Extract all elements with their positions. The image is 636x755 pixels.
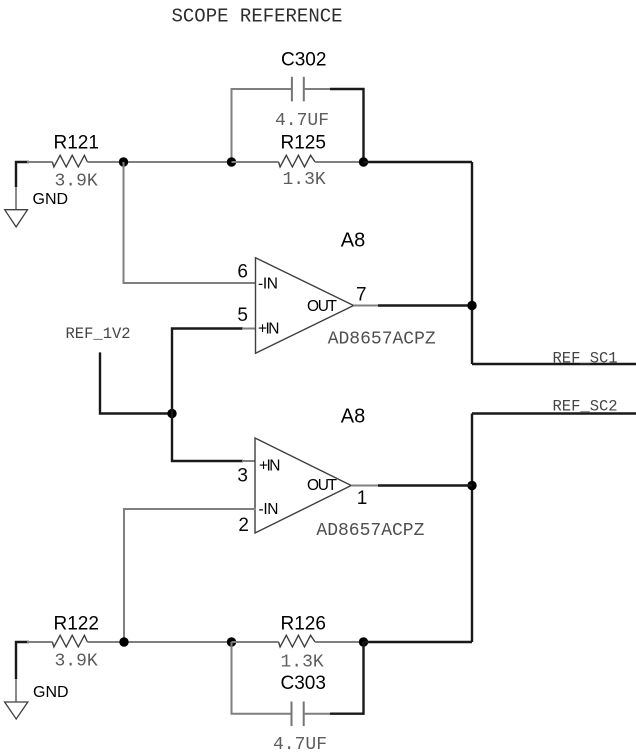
junction node N4 bbox=[467, 481, 476, 490]
wire R126 to node N7 bbox=[315, 641, 363, 643]
wire REF_1V2 stem bbox=[100, 352, 172, 413]
wire N7 to feedback corner (bottom) bbox=[364, 641, 473, 643]
svg-text:1.3K: 1.3K bbox=[281, 653, 324, 673]
svg-text:C303: C303 bbox=[281, 673, 326, 694]
wire REF_SC1 horizontal bbox=[472, 363, 636, 365]
wire C303 left branch bbox=[232, 642, 292, 714]
wire C303 right branch bbox=[330, 642, 364, 714]
wire REF_SC2 vertical to node N4 bbox=[471, 414, 473, 643]
svg-text:1: 1 bbox=[357, 488, 368, 509]
junction node N3 bbox=[467, 301, 476, 310]
svg-text:4.7UF: 4.7UF bbox=[273, 735, 327, 755]
svg-text:A8: A8 bbox=[341, 406, 365, 428]
op-amp U1A (A8 top) bbox=[256, 258, 354, 354]
wire R122 to node N6 bbox=[87, 641, 231, 643]
wire OUT1 to node N3 bbox=[378, 304, 472, 306]
pin 7 output stub bbox=[354, 305, 379, 307]
wire C302 left branch bbox=[232, 89, 292, 162]
ground GND2 bbox=[5, 678, 28, 719]
junction node REF_1V2 bbox=[167, 409, 176, 418]
pin 1 output stub bbox=[351, 485, 379, 487]
svg-text:+IN: +IN bbox=[258, 321, 280, 338]
wire N6 to R126 bbox=[232, 641, 279, 643]
svg-text:A8: A8 bbox=[341, 230, 365, 252]
svg-text:7: 7 bbox=[356, 285, 367, 306]
wire C302 right lead bbox=[304, 88, 330, 90]
svg-text:-IN: -IN bbox=[258, 276, 278, 293]
wire R121 left lead bbox=[27, 161, 52, 163]
pin 3 stub bbox=[242, 460, 255, 462]
wire R121 to node N1 bbox=[87, 161, 231, 163]
resistor R121 bbox=[52, 155, 87, 167]
capacitor C303 bbox=[291, 702, 293, 727]
svg-text:2: 2 bbox=[238, 515, 249, 536]
op-amp U1B (A8 bottom) bbox=[255, 438, 351, 533]
svg-text:3.9K: 3.9K bbox=[55, 652, 98, 672]
svg-text:R121: R121 bbox=[54, 133, 99, 154]
svg-text:OUT: OUT bbox=[307, 298, 338, 315]
wire GND2 elbow bbox=[16, 642, 29, 679]
svg-text:3: 3 bbox=[237, 466, 248, 487]
svg-text:-IN: -IN bbox=[259, 501, 279, 518]
svg-text:+IN: +IN bbox=[259, 458, 281, 475]
wire GND1 elbow bbox=[16, 162, 29, 187]
svg-text:C302: C302 bbox=[281, 50, 326, 71]
wire REF_SC2 horizontal bbox=[472, 412, 636, 414]
resistor R125 bbox=[279, 155, 316, 167]
svg-text:REF_1V2: REF_1V2 bbox=[66, 325, 131, 343]
junction node N1 bbox=[119, 157, 128, 166]
svg-text:5: 5 bbox=[237, 305, 248, 326]
svg-text:4.7UF: 4.7UF bbox=[275, 111, 329, 131]
svg-text:R125: R125 bbox=[281, 133, 326, 154]
wire -IN pin 2 to node N5 bbox=[124, 509, 256, 642]
junction node N6 (C303 tap) bbox=[227, 637, 236, 646]
svg-text:SCOPE REFERENCE: SCOPE REFERENCE bbox=[172, 6, 343, 28]
junction node N7 bbox=[359, 637, 368, 646]
ground GND1 bbox=[5, 186, 28, 227]
wire C302 right branch bbox=[330, 89, 364, 162]
resistor R126 bbox=[279, 635, 316, 647]
svg-text:AD8657ACPZ: AD8657ACPZ bbox=[328, 330, 436, 350]
svg-text:AD8657ACPZ: AD8657ACPZ bbox=[316, 521, 424, 541]
svg-text:OUT: OUT bbox=[307, 477, 338, 494]
pin 5 stub bbox=[242, 328, 256, 330]
wire REF_1V2 riser to +IN pin 5 bbox=[172, 329, 243, 414]
wire R125 to node N2 bbox=[315, 161, 363, 163]
wire OUT2 to node N4 bbox=[378, 484, 472, 486]
svg-text:GND: GND bbox=[33, 684, 69, 701]
wire R122 left lead bbox=[27, 641, 52, 643]
svg-text:1.3K: 1.3K bbox=[283, 170, 326, 190]
wire C303 right lead bbox=[304, 713, 330, 715]
wire N2 to feedback corner bbox=[364, 161, 473, 163]
wire N1b to R125 bbox=[232, 161, 279, 163]
resistor R122 bbox=[52, 635, 87, 647]
junction node N2 bbox=[359, 157, 368, 166]
wire N1 to -IN pin 6 bbox=[124, 162, 256, 283]
capacitor C302 bbox=[291, 77, 293, 102]
wire feedback vertical (net REF_SC1) bbox=[471, 162, 473, 364]
svg-text:3.9K: 3.9K bbox=[55, 172, 98, 192]
junction node N5 bbox=[119, 637, 128, 646]
svg-text:REF_SC2: REF_SC2 bbox=[553, 398, 618, 416]
junction node N1b (C302 tap) bbox=[227, 157, 236, 166]
svg-text:REF_SC1: REF_SC1 bbox=[553, 350, 618, 368]
svg-text:R126: R126 bbox=[281, 614, 326, 635]
svg-text:GND: GND bbox=[33, 191, 69, 208]
svg-text:R122: R122 bbox=[54, 614, 99, 635]
svg-text:6: 6 bbox=[237, 262, 248, 283]
wire REF_1V2 drop to +IN pin 3 bbox=[172, 414, 243, 462]
